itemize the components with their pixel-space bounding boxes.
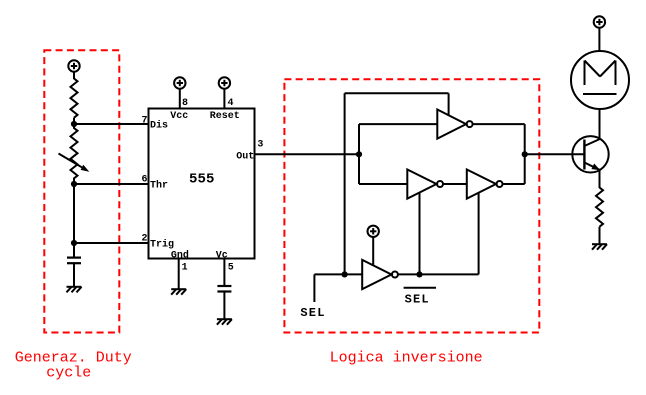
Vcc supply symbol at pin 8 xyxy=(174,77,185,88)
svg-text:2: 2 xyxy=(142,234,148,245)
capacitor C1 xyxy=(67,258,81,264)
wire U3 to U4 xyxy=(443,183,467,185)
label SELbar xyxy=(404,288,436,307)
wire Vcc to U5 top xyxy=(372,237,374,266)
svg-text:6: 6 xyxy=(142,175,148,186)
inverter U2 (top) xyxy=(437,110,472,139)
wire U3 enable down xyxy=(419,193,421,275)
wire node to C1 xyxy=(73,243,75,258)
wire R1 to node Dis xyxy=(73,118,75,126)
svg-text:8: 8 xyxy=(182,98,188,109)
wire node B to transistor base xyxy=(525,153,585,155)
Vcc supply symbol at U5 xyxy=(368,226,379,237)
node SELbar junction xyxy=(416,271,422,277)
potentiometer P1 xyxy=(59,126,90,184)
wire Out pin3 to node A xyxy=(255,153,360,155)
svg-text:555: 555 xyxy=(189,172,215,188)
wire enable top horizontal xyxy=(345,92,449,94)
svg-text:1: 1 xyxy=(182,262,188,273)
inverter U4 (lower right) xyxy=(467,170,503,199)
pin 5 Vc label xyxy=(216,250,234,273)
inverter U5 (SEL buffer) xyxy=(362,260,398,289)
wire R2 to ground xyxy=(599,227,601,245)
dashed group box: Generaz. Duty cycle xyxy=(44,50,119,332)
op IC U1 555 body xyxy=(149,109,255,259)
svg-text:Logica inversione: Logica inversione xyxy=(330,350,483,367)
wire U2 output xyxy=(473,123,525,125)
pin 6 Thr label xyxy=(142,175,169,192)
node junction trig/cap xyxy=(71,240,77,246)
ground (emitter) xyxy=(592,244,607,250)
wire motor to collector xyxy=(599,109,601,140)
wire node A up xyxy=(358,124,360,154)
pin 1 Gnd label xyxy=(171,249,189,273)
wire C1 to ground xyxy=(73,263,75,287)
svg-text:5: 5 xyxy=(228,262,234,273)
capacitor C2 xyxy=(217,286,231,292)
wire node to pin 6 xyxy=(74,183,149,185)
wire pin 1 Gnd down xyxy=(178,259,180,290)
wire U2 enable up xyxy=(448,93,450,115)
wire V1 to R1 xyxy=(73,72,75,79)
svg-text:Thr: Thr xyxy=(150,180,168,192)
wire to U2 input xyxy=(359,123,437,125)
node SEL junction xyxy=(342,271,348,277)
svg-text:3: 3 xyxy=(257,140,263,151)
svg-text:SEL: SEL xyxy=(300,306,325,320)
node junction R1/pot/pin7 xyxy=(71,121,77,127)
label Generaz. Duty cycle xyxy=(15,349,132,381)
wire SEL stub down xyxy=(313,274,315,302)
wire C2 to ground xyxy=(223,292,225,320)
ground (pin 5 cap) xyxy=(217,319,232,325)
svg-text:cycle: cycle xyxy=(46,365,91,382)
wire node to pin 2 xyxy=(74,242,149,244)
motor M1 xyxy=(571,51,629,109)
wire Vcc to motor xyxy=(598,28,600,52)
node A junction (out) xyxy=(356,151,362,157)
pin 7 Dis label xyxy=(142,116,169,132)
inverter U3 (lower left) xyxy=(407,170,443,199)
svg-text:Trig: Trig xyxy=(150,239,174,251)
pin 4 Reset label xyxy=(210,98,240,122)
node junction pot/pin6 xyxy=(71,181,77,187)
svg-text:Reset: Reset xyxy=(210,111,240,122)
svg-text:Gnd: Gnd xyxy=(171,249,189,261)
wire emitter down xyxy=(599,170,601,188)
resistor R2 (emitter) xyxy=(596,188,603,227)
dashed group box: Logica inversione xyxy=(284,79,539,332)
wire U4 output xyxy=(503,183,525,185)
wire U4 enable down xyxy=(478,193,480,275)
wire pin 5 to C2 xyxy=(223,259,225,287)
Vcc supply symbol (motor) xyxy=(594,16,605,27)
svg-text:7: 7 xyxy=(142,116,148,127)
wire pot to node Trig xyxy=(73,184,75,243)
wire U2 output down xyxy=(524,124,526,154)
wire to U3 input xyxy=(359,183,407,185)
wire node A down xyxy=(358,154,360,184)
svg-text:4: 4 xyxy=(228,98,234,109)
svg-text:Vcc: Vcc xyxy=(170,111,188,122)
resistor R1 xyxy=(71,79,78,118)
wire U5 output (SELbar) xyxy=(398,273,479,275)
svg-text:SEL: SEL xyxy=(405,292,430,306)
wire pin 8 to Vcc symbol xyxy=(179,89,181,109)
wire SEL vertical xyxy=(344,93,346,274)
wire SEL input horizontal xyxy=(314,273,362,275)
pin 3 Out label xyxy=(236,140,263,163)
wire node to pin 7 xyxy=(74,123,149,125)
ground (left) xyxy=(67,287,82,293)
ground (pin 1) xyxy=(171,289,186,295)
pin 2 Trig label xyxy=(142,234,175,251)
svg-text:Vc: Vc xyxy=(216,250,228,261)
svg-text:Dis: Dis xyxy=(150,120,168,132)
svg-text:Out: Out xyxy=(236,151,254,162)
wire U4 output up to node B xyxy=(524,154,526,184)
node B junction (to base) xyxy=(522,151,528,157)
Vcc supply symbol V1 (left) xyxy=(68,60,79,71)
transistor Q1 xyxy=(572,136,608,172)
pin 8 Vcc label xyxy=(170,98,188,122)
wire pin 4 to Vcc symbol xyxy=(223,89,225,109)
Vcc supply symbol at pin 4 xyxy=(219,77,230,88)
